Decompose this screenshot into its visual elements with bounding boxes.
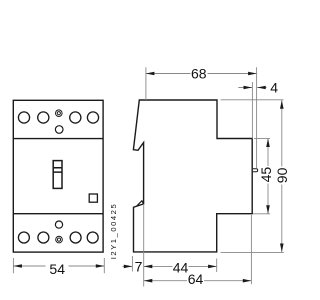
svg-text:7: 7 [135,259,143,275]
svg-text:45: 45 [258,167,274,183]
svg-text:64: 64 [188,271,204,287]
svg-text:44: 44 [173,259,189,275]
svg-text:90: 90 [274,167,290,183]
svg-text:68: 68 [191,66,207,82]
svg-text:54: 54 [49,261,65,277]
svg-text:4: 4 [270,80,278,96]
svg-text:I2Y1_00425: I2Y1_00425 [109,203,118,259]
